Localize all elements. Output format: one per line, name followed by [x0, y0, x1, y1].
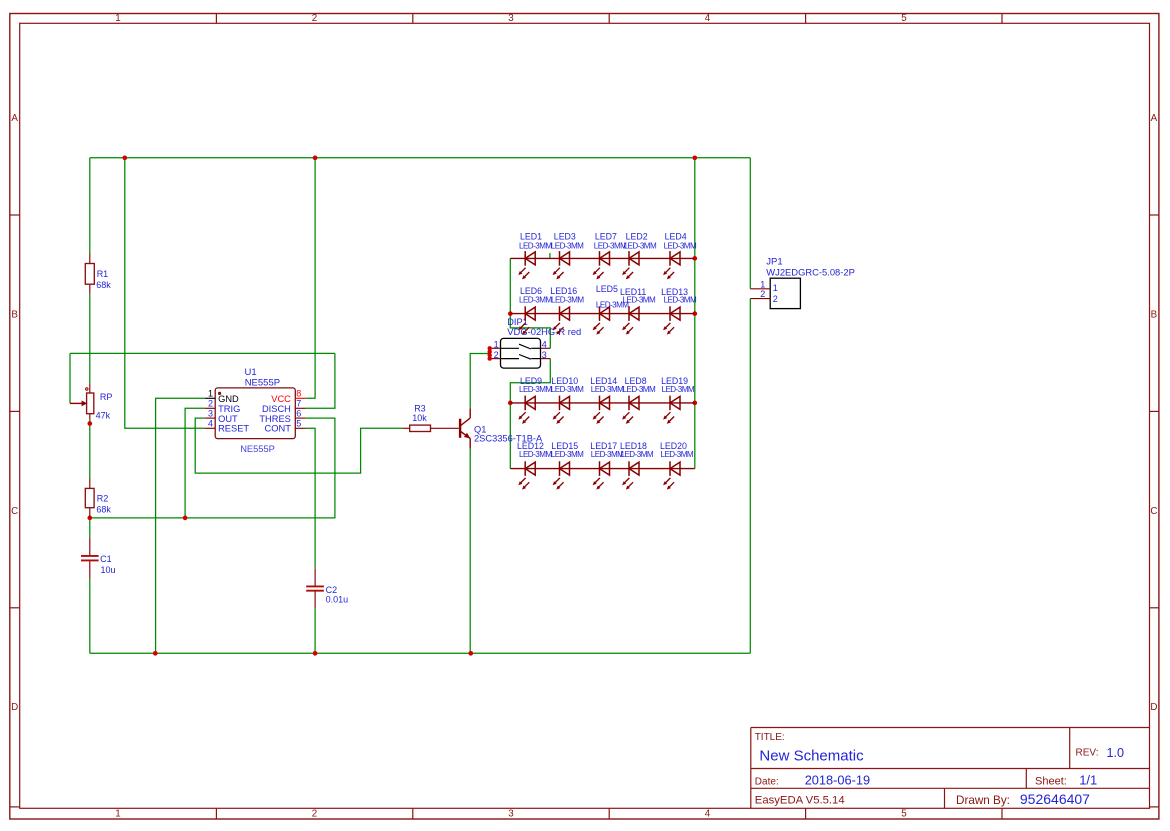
svg-text:LED-3MM: LED-3MM: [662, 385, 695, 394]
LED LED6: [518, 306, 535, 334]
LED LED1: [518, 251, 535, 279]
wire R1 bottom to RP top: [89, 294, 91, 384]
svg-text:2: 2: [208, 399, 213, 409]
svg-text:B: B: [1151, 310, 1158, 321]
svg-text:1: 1: [773, 283, 778, 293]
LED LED20: [663, 461, 680, 489]
svg-text:4: 4: [208, 418, 213, 428]
svg-text:LED4: LED4: [665, 231, 687, 241]
svg-text:5: 5: [901, 809, 907, 820]
svg-text:2: 2: [494, 350, 499, 360]
svg-text:4: 4: [542, 340, 547, 350]
svg-text:A: A: [1151, 113, 1158, 124]
pin 2 lead of U1 (TRIG): [205, 407, 215, 409]
svg-text:Sheet:: Sheet:: [1035, 775, 1067, 787]
junction on ground bus at x=470.8: [468, 651, 473, 656]
wire Q1 collector to DIP1 pins 1-2: [470, 354, 489, 409]
svg-text:LED-3MM: LED-3MM: [664, 296, 697, 305]
svg-text:3: 3: [542, 350, 547, 360]
svg-text:4: 4: [705, 13, 711, 24]
svg-text:LED-3MM: LED-3MM: [551, 241, 584, 250]
svg-text:1: 1: [115, 13, 120, 24]
wire C2 bottom to ground bus: [314, 608, 316, 653]
wire JP1 pin1 to VCC bus: [749, 158, 751, 289]
junction TRIG tee: [183, 516, 188, 521]
svg-text:LED-3MM: LED-3MM: [623, 385, 656, 394]
junction LED row3 right: [692, 401, 697, 406]
wire U1 TRIG to R2/C1 node: [185, 408, 205, 518]
svg-text:THRES: THRES: [259, 414, 291, 424]
svg-text:CONT: CONT: [265, 424, 292, 434]
title block frame: [751, 728, 1150, 809]
junction LED row1 right: [692, 256, 697, 261]
connector JP1 body: [750, 278, 800, 308]
LED LED17: [593, 461, 610, 489]
svg-text:Drawn By:: Drawn By:: [956, 794, 1010, 807]
svg-text:LED-3MM: LED-3MM: [624, 241, 657, 250]
svg-text:1/1: 1/1: [1079, 772, 1097, 787]
op-amp/timer U1 NE555P box: [215, 388, 295, 439]
junction LED row3 left: [508, 401, 513, 406]
resistor R3: [403, 425, 459, 431]
wire VCC top bus: [90, 157, 751, 159]
svg-text:1: 1: [494, 340, 499, 350]
svg-text:LED-3MM: LED-3MM: [551, 450, 584, 459]
svg-text:C1: C1: [100, 554, 112, 564]
svg-text:10k: 10k: [412, 413, 427, 423]
LED LED10: [553, 396, 570, 424]
LED LED8: [622, 396, 639, 424]
svg-text:2: 2: [312, 809, 317, 820]
junction LED row2 left: [508, 311, 513, 316]
svg-text:RESET: RESET: [218, 424, 249, 434]
wire U1 DISCH riser: [306, 353, 335, 408]
pin 4 lead of U1 (RESET): [205, 427, 215, 429]
svg-text:47k: 47k: [96, 410, 111, 420]
svg-text:GND: GND: [218, 394, 239, 404]
LED LED18: [622, 461, 639, 489]
LED LED5: [593, 306, 610, 334]
resistor R2: [85, 479, 94, 518]
svg-text:10u: 10u: [101, 565, 116, 575]
wire LED row3 bus: [510, 402, 695, 404]
junction on VCC bus at x=315.1: [313, 155, 318, 160]
svg-text:B: B: [11, 310, 18, 321]
svg-text:LED-3MM: LED-3MM: [661, 450, 694, 459]
junction dots at DIP1 pins 1-2: [488, 346, 492, 361]
LED LED3: [553, 251, 570, 279]
junction LED row2 right: [692, 311, 697, 316]
junction R2 bottom node: [87, 516, 92, 521]
svg-text:LED2: LED2: [626, 231, 648, 241]
svg-text:2: 2: [760, 289, 765, 299]
pin 5 lead of U1 (CONT): [295, 427, 305, 429]
potentiometer RP: [70, 384, 94, 420]
svg-text:5: 5: [296, 418, 301, 428]
capacitor C1: [81, 538, 99, 579]
wire JP1 pin2 to ground bus: [749, 299, 751, 654]
svg-text:New Schematic: New Schematic: [759, 748, 864, 765]
transistor Q1: [460, 408, 470, 448]
svg-text:LED-3MM: LED-3MM: [519, 450, 552, 459]
wire R1 top to VCC bus: [89, 158, 91, 254]
svg-text:1: 1: [208, 388, 213, 398]
wire LED row2 bus: [510, 313, 695, 315]
svg-text:LED-3MM: LED-3MM: [519, 385, 552, 394]
LED LED7: [593, 251, 610, 279]
wire RP top / DISCH horizontal: [70, 352, 335, 354]
svg-text:952646407: 952646407: [1020, 791, 1090, 807]
svg-text:1.0: 1.0: [1107, 746, 1125, 760]
svg-text:3: 3: [508, 809, 514, 820]
LED LED11: [622, 306, 639, 334]
svg-text:3: 3: [208, 409, 213, 419]
svg-text:2: 2: [312, 13, 317, 24]
svg-text:A: A: [11, 113, 18, 124]
pin 6 lead of U1 (THRES): [295, 417, 305, 419]
svg-text:R1: R1: [97, 269, 109, 279]
wire LED row1 bus: [510, 257, 695, 259]
svg-text:Date:: Date:: [755, 776, 779, 787]
svg-text:68k: 68k: [96, 280, 111, 290]
junction on ground bus at x=315.1: [313, 651, 318, 656]
LED LED13: [663, 306, 680, 334]
wire DIP1 pin3 to LED rows 3-4 left side: [510, 359, 550, 469]
wire C1 bottom to ground bus: [89, 579, 91, 654]
svg-text:LED-3MM: LED-3MM: [519, 241, 552, 250]
svg-text:TITLE:: TITLE:: [755, 732, 785, 743]
pin 1 lead of U1 (GND): [205, 397, 215, 399]
pin 3 lead of U1 (OUT): [205, 417, 215, 419]
LED LED2: [622, 251, 639, 279]
svg-text:LED-3MM: LED-3MM: [594, 241, 627, 250]
svg-text:LED-3MM: LED-3MM: [551, 296, 584, 305]
svg-text:2018-06-19: 2018-06-19: [805, 772, 870, 787]
LED LED19: [663, 396, 680, 424]
wire RP bottom to R2 top: [89, 420, 91, 479]
svg-text:VDG-02HG-R red: VDG-02HG-R red: [507, 326, 581, 337]
svg-text:68k: 68k: [96, 505, 111, 515]
capacitor C2: [306, 568, 324, 608]
svg-text:C: C: [1150, 506, 1157, 517]
junction RP bottom: [87, 421, 92, 426]
wire ground bottom bus: [90, 652, 751, 654]
wire Q1 emitter to ground bus: [469, 449, 471, 654]
svg-text:TRIG: TRIG: [218, 404, 240, 414]
svg-text:LED-3MM: LED-3MM: [591, 450, 624, 459]
svg-text:NE555P: NE555P: [240, 444, 275, 454]
LED LED14: [593, 396, 610, 424]
svg-text:7: 7: [296, 399, 301, 409]
junction on VCC bus at x=694.8: [692, 155, 697, 160]
svg-text:4: 4: [705, 809, 711, 820]
svg-text:REV:: REV:: [1076, 748, 1099, 759]
svg-text:LED-3MM: LED-3MM: [519, 296, 552, 305]
pin-1 marker dot of U1: [218, 392, 221, 395]
LED LED15: [553, 461, 570, 489]
svg-text:RP: RP: [100, 392, 113, 402]
svg-text:C: C: [11, 506, 18, 517]
svg-text:LED-3MM: LED-3MM: [551, 385, 584, 394]
resistor R1: [85, 254, 94, 294]
wire U1 GND pin to ground bus: [156, 398, 205, 653]
wire RP wiper drop: [69, 353, 71, 403]
svg-text:1: 1: [115, 809, 120, 820]
LED LED4: [663, 251, 680, 279]
wire R2/C1 node to U1 THRES: [90, 418, 335, 518]
wire U1 OUT to R3: [195, 418, 402, 473]
svg-text:DISCH: DISCH: [262, 404, 291, 414]
svg-text:LED5: LED5: [596, 284, 618, 294]
svg-text:8: 8: [296, 388, 301, 398]
wire DIP1 pin4 to LED row2 node: [510, 314, 550, 349]
svg-text:WJ2EDGRC-5.08-2P: WJ2EDGRC-5.08-2P: [766, 266, 855, 277]
wire U1 CONT to C2 top: [306, 428, 316, 568]
svg-text:3: 3: [508, 13, 514, 24]
wire LED row1 to row2 left side: [509, 258, 511, 313]
junction on VCC bus at x=124.8: [122, 155, 127, 160]
junction on ground bus at x=155.3: [153, 651, 158, 656]
svg-text:R2: R2: [97, 494, 109, 504]
svg-text:EasyEDA V5.5.14: EasyEDA V5.5.14: [755, 794, 845, 806]
svg-text:D: D: [11, 702, 18, 713]
LED LED16: [553, 306, 570, 334]
svg-text:LED-3MM: LED-3MM: [664, 241, 697, 250]
LED LED12: [518, 461, 535, 489]
pin 8 lead of U1 (VCC): [295, 397, 305, 399]
svg-text:OUT: OUT: [218, 414, 238, 424]
svg-text:LED-3MM: LED-3MM: [621, 450, 654, 459]
svg-text:VCC: VCC: [271, 394, 291, 404]
svg-text:6: 6: [296, 409, 301, 419]
svg-text:LED1: LED1: [520, 231, 542, 241]
wire LED row4 bus: [510, 468, 695, 470]
svg-text:D: D: [1150, 702, 1157, 713]
wire R2 bottom to C1 top: [89, 518, 91, 538]
pin 7 lead of U1 (DISCH): [295, 407, 305, 409]
wire U1 RESET to VCC bus: [125, 158, 205, 429]
svg-text:LED7: LED7: [595, 231, 617, 241]
svg-text:NE555P: NE555P: [245, 377, 280, 388]
LED LED9: [518, 396, 535, 424]
svg-text:2: 2: [773, 294, 778, 304]
dip switch DIP1 body: [489, 338, 551, 368]
svg-text:LED-3MM: LED-3MM: [623, 296, 656, 305]
wire LED right bus to VCC bus: [694, 158, 696, 469]
svg-text:5: 5: [901, 13, 907, 24]
wire U1 VCC pin to VCC bus: [306, 158, 316, 398]
svg-text:LED3: LED3: [554, 231, 576, 241]
wire stub above LED row1: [549, 253, 551, 258]
svg-text:LED-3MM: LED-3MM: [591, 385, 624, 394]
svg-text:0.01u: 0.01u: [326, 594, 349, 604]
